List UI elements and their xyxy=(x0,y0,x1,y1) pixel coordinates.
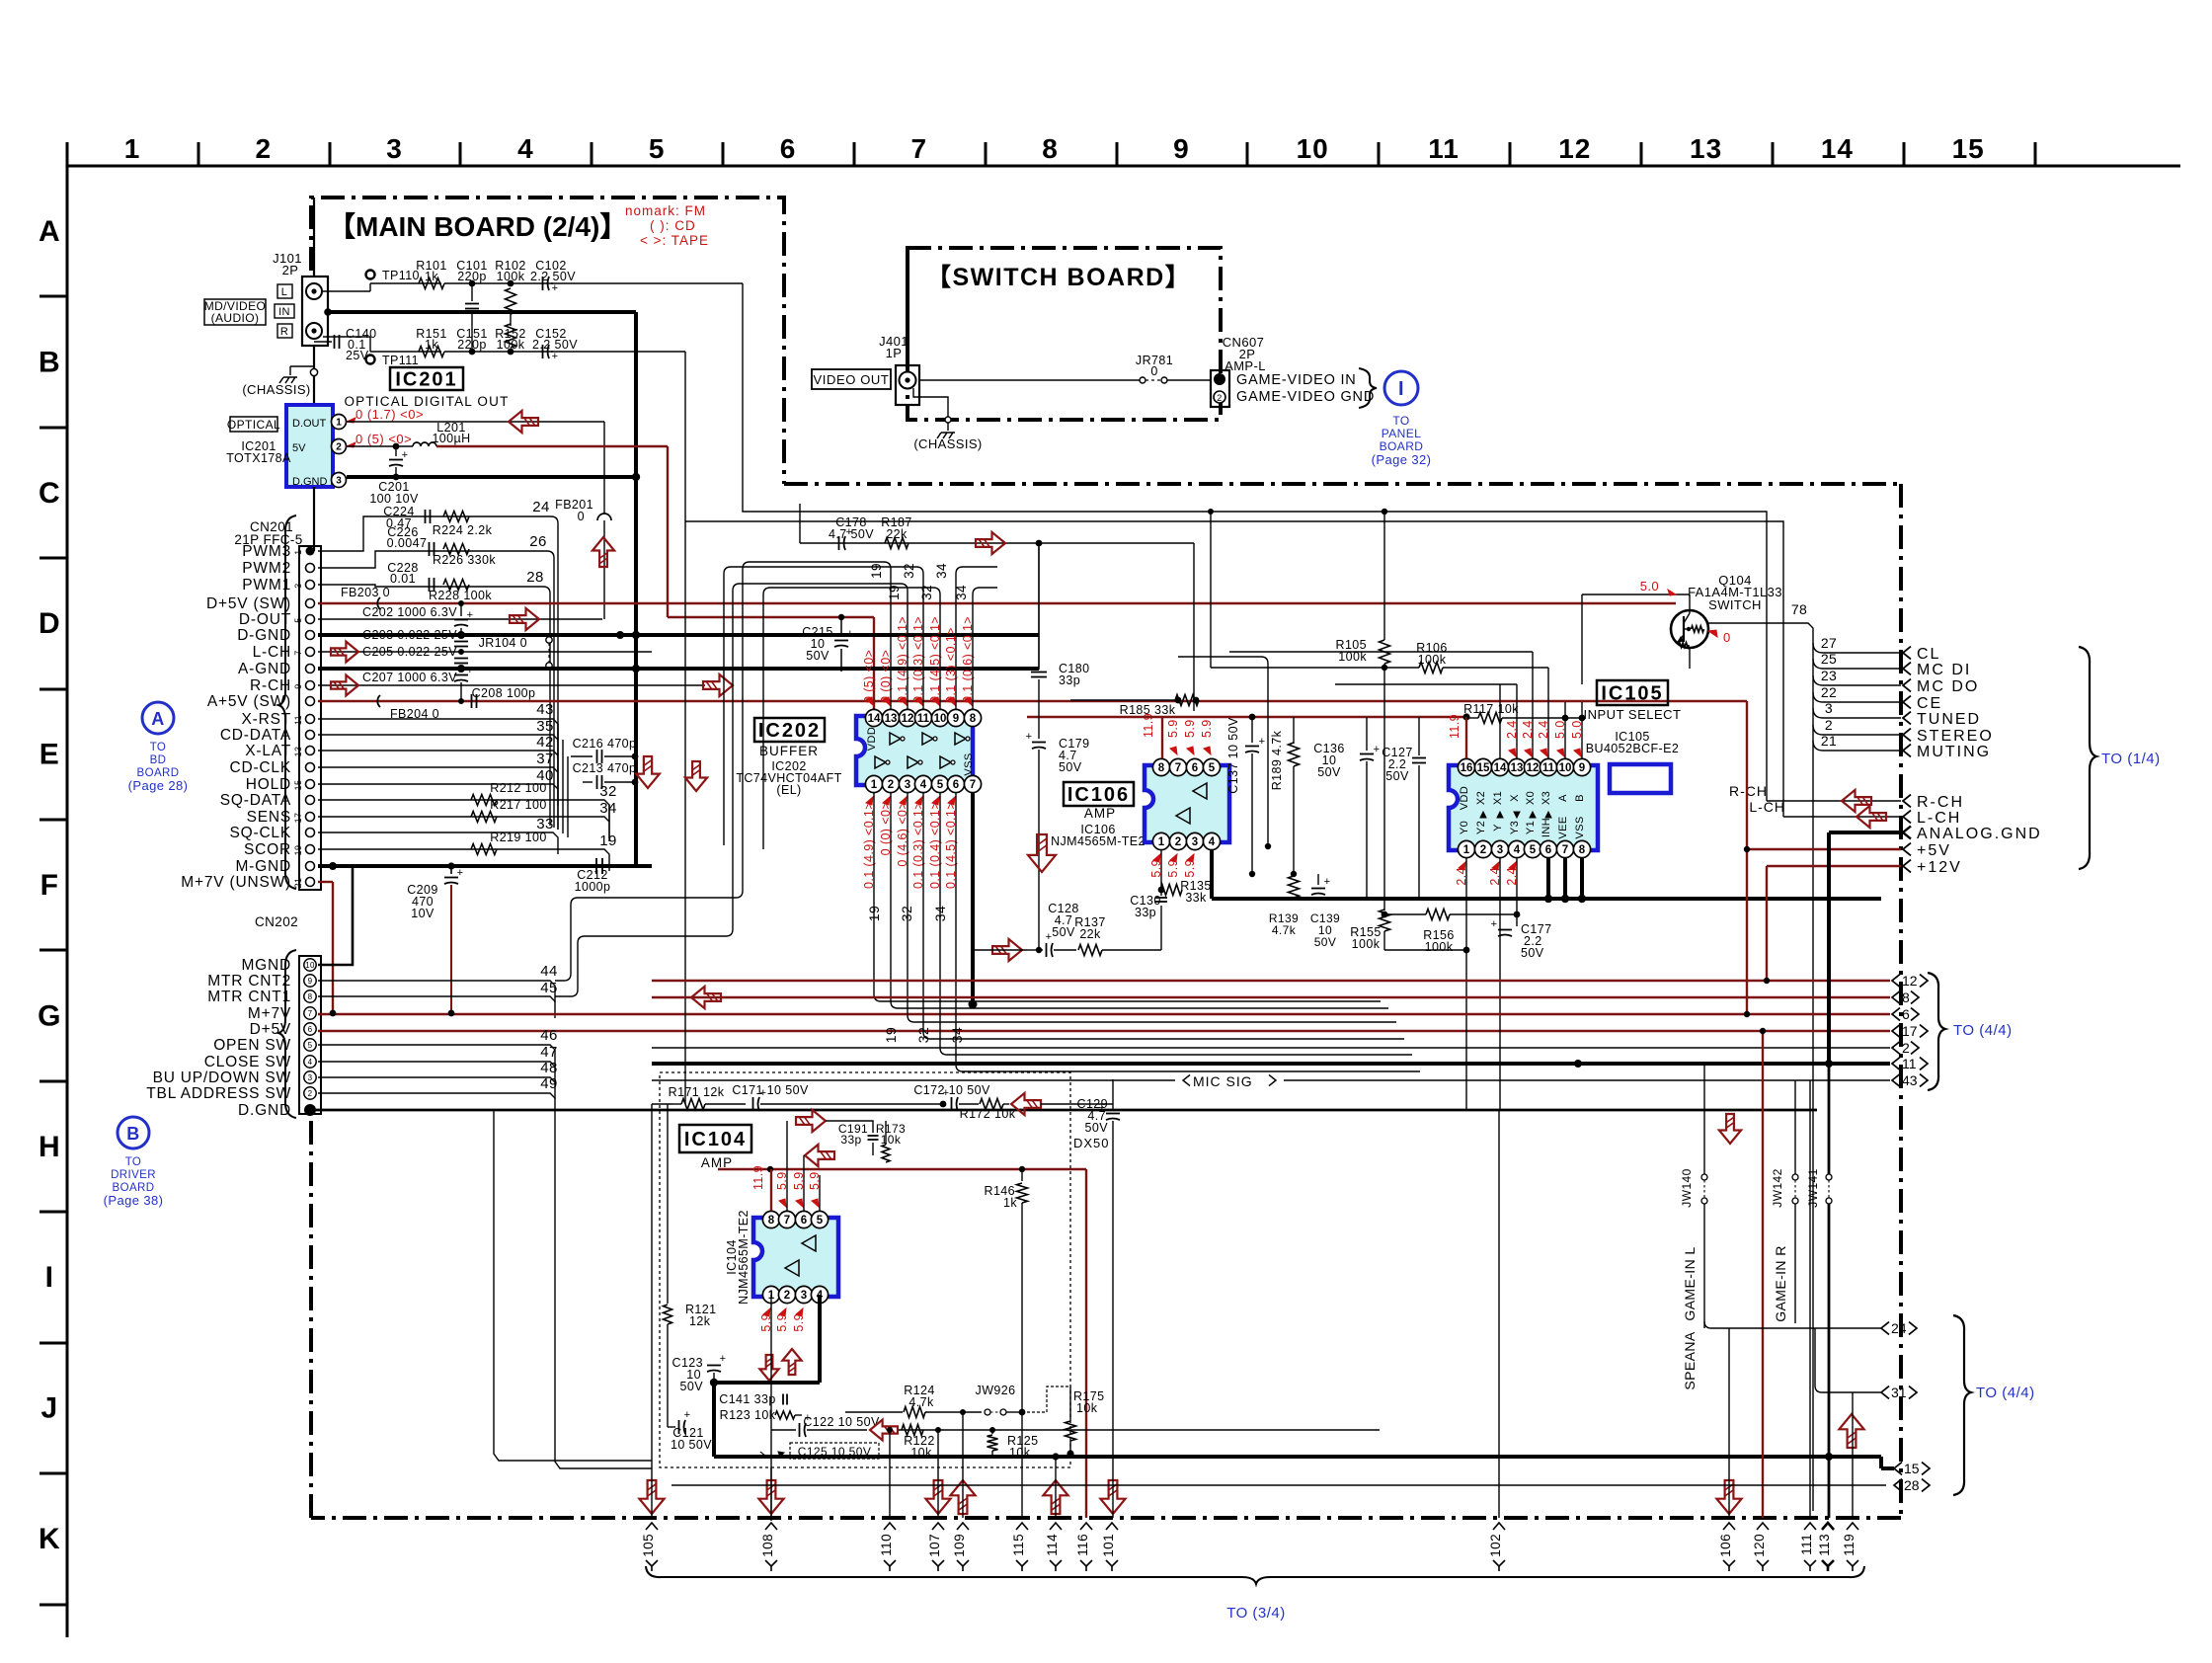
svg-text:12: 12 xyxy=(1558,133,1591,164)
svg-text:JW141: JW141 xyxy=(1806,1168,1820,1207)
svg-text:TO: TO xyxy=(1392,414,1409,428)
SWITCH BOARD dash-dot box xyxy=(908,248,1221,420)
wire MGND down from M-GND xyxy=(352,866,355,894)
svg-text:50V: 50V xyxy=(806,649,829,663)
svg-text:(EL): (EL) xyxy=(776,783,801,797)
IC104 opamp gates xyxy=(802,1235,816,1251)
svg-text:19: 19 xyxy=(887,585,902,600)
svg-text:X-LAT: X-LAT xyxy=(245,743,291,759)
IC202 label box xyxy=(754,718,825,742)
svg-text:CL: CL xyxy=(1917,646,1940,663)
bottom connector 116 xyxy=(1080,1523,1092,1530)
svg-text:12: 12 xyxy=(1902,973,1918,989)
svg-text:33p: 33p xyxy=(1059,673,1080,687)
wire Q104 collector to 78 bus xyxy=(1707,622,1797,624)
svg-text:5.9: 5.9 xyxy=(1200,719,1214,738)
svg-text:49: 49 xyxy=(540,1075,558,1092)
svg-text:10k: 10k xyxy=(881,1133,902,1147)
svg-text:44: 44 xyxy=(540,963,558,980)
red supply line IC104 xyxy=(718,1168,1086,1170)
svg-text:GAME-VIDEO IN: GAME-VIDEO IN xyxy=(1236,372,1357,388)
svg-text:R: R xyxy=(280,326,288,338)
svg-text:6: 6 xyxy=(1545,844,1551,856)
svg-text:STEREO: STEREO xyxy=(1917,728,1994,745)
svg-text:C207 1000 6.3V: C207 1000 6.3V xyxy=(362,671,457,684)
IC201 pin 3 xyxy=(332,473,347,488)
svg-text:H: H xyxy=(39,1131,60,1163)
ferrite bead FB201 xyxy=(603,422,605,514)
svg-text:2: 2 xyxy=(336,441,342,452)
svg-text:43: 43 xyxy=(536,701,554,718)
svg-text:5.0: 5.0 xyxy=(1570,720,1584,739)
svg-text:11: 11 xyxy=(1542,762,1555,774)
svg-text:2P: 2P xyxy=(282,263,299,277)
CN201 pin A+5V (SW) xyxy=(306,697,315,706)
CN202 pin MTR CNT2 xyxy=(304,975,316,987)
svg-text:42: 42 xyxy=(536,734,554,751)
red arrow before C128 xyxy=(992,939,1022,961)
long wire to L-CH xyxy=(684,352,686,1104)
svg-text:JR104 0: JR104 0 xyxy=(479,636,527,650)
svg-text:L-CH: L-CH xyxy=(1917,810,1961,827)
wire PWM3 row 24 xyxy=(318,516,551,551)
bottom connector 107 xyxy=(932,1523,944,1530)
svg-text:107: 107 xyxy=(927,1534,942,1557)
svg-text:100 10V: 100 10V xyxy=(369,492,419,506)
svg-text:5.9: 5.9 xyxy=(1166,859,1180,878)
svg-text:35: 35 xyxy=(536,718,554,735)
CN201 pin M+7V (UNSW) xyxy=(306,878,315,887)
IC202 output hairpin wires bottom xyxy=(874,793,1381,1001)
test point TP110 xyxy=(366,271,375,279)
svg-text:X: X xyxy=(1509,794,1521,802)
svg-text:MIC SIG: MIC SIG xyxy=(1193,1073,1253,1089)
red arrow mid right xyxy=(703,674,733,696)
label OPTICAL xyxy=(230,417,277,432)
svg-text:10: 10 xyxy=(934,713,947,725)
svg-text:GAME-IN L: GAME-IN L xyxy=(1682,1246,1698,1320)
svg-text:MTR CNT2: MTR CNT2 xyxy=(207,973,291,990)
svg-text:+: + xyxy=(1046,931,1053,943)
svg-text:17: 17 xyxy=(293,813,303,824)
svg-text:D-GND: D-GND xyxy=(237,627,291,644)
svg-text:VSS: VSS xyxy=(1574,816,1586,838)
svg-text:3: 3 xyxy=(293,583,303,588)
signal MC DI xyxy=(1813,659,1901,669)
IC202 pin7 VSS thick wire xyxy=(971,793,975,1004)
svg-text:C137 10 50V: C137 10 50V xyxy=(1226,717,1240,794)
svg-text:X1: X1 xyxy=(1492,791,1504,805)
svg-text:A-GND: A-GND xyxy=(238,661,291,677)
svg-text:+5V: +5V xyxy=(1917,842,1951,859)
svg-text:R185 33k: R185 33k xyxy=(1120,703,1176,717)
svg-text:21: 21 xyxy=(293,878,303,889)
red arrow R-CH xyxy=(331,675,358,696)
red wire D+5V SW row xyxy=(318,602,1676,604)
svg-text:C: C xyxy=(39,477,60,510)
capacitor C125 dashed box xyxy=(790,1443,879,1459)
svg-text:19: 19 xyxy=(883,1027,899,1043)
svg-text:C208 100p: C208 100p xyxy=(472,686,536,700)
svg-text:PANEL: PANEL xyxy=(1382,427,1421,440)
svg-text:< >: TAPE: < >: TAPE xyxy=(640,233,709,248)
svg-text:VIDEO OUT: VIDEO OUT xyxy=(814,372,890,387)
transistor Q104 FA1A4M-T1L33 SWITCH xyxy=(1671,610,1708,648)
svg-text:7: 7 xyxy=(911,133,928,164)
svg-text:(AUDIO): (AUDIO) xyxy=(211,311,260,325)
svg-text:0.01: 0.01 xyxy=(390,572,416,586)
svg-text:BUFFER: BUFFER xyxy=(759,744,819,758)
svg-text:4.7k: 4.7k xyxy=(1272,923,1297,937)
IC106 top pins xyxy=(1152,758,1169,775)
svg-text:D-OUT: D-OUT xyxy=(239,611,291,628)
red arrow L-CH xyxy=(331,642,358,663)
wire MTR CNT2 44 xyxy=(318,980,538,982)
bottom connector 120 xyxy=(1757,1523,1769,1530)
svg-text:7: 7 xyxy=(1175,762,1181,774)
wire caps to M-GND xyxy=(634,756,636,866)
svg-text:JW926: JW926 xyxy=(976,1384,1016,1397)
IC106 label box xyxy=(1064,782,1134,806)
MAIN BOARD dash-dot border xyxy=(311,198,784,484)
svg-text:TO (4/4): TO (4/4) xyxy=(1976,1385,2035,1401)
wire A-GND row thick xyxy=(318,667,1039,671)
svg-text:2: 2 xyxy=(1825,717,1833,733)
svg-text:TO: TO xyxy=(125,1156,142,1168)
svg-text:28: 28 xyxy=(1904,1477,1920,1493)
dotted jumper link xyxy=(1022,1386,1070,1412)
CN201 pin CD-DATA xyxy=(306,731,315,740)
svg-text:R-CH: R-CH xyxy=(1917,794,1964,811)
svg-text:R217 100: R217 100 xyxy=(490,798,546,812)
IC202 body xyxy=(856,716,973,785)
svg-text:nomark: FM: nomark: FM xyxy=(625,203,706,218)
red wire 12V to IC106 pin8 xyxy=(1027,716,1466,718)
svg-text:114: 114 xyxy=(1045,1534,1060,1556)
svg-text:A+5V (SW): A+5V (SW) xyxy=(207,693,291,710)
svg-text:(Page 32): (Page 32) xyxy=(1372,452,1432,467)
svg-text:50V: 50V xyxy=(1059,760,1082,774)
svg-text:【MAIN BOARD (2/4)】: 【MAIN BOARD (2/4)】 xyxy=(328,211,627,242)
capacitor C201 100 10V xyxy=(393,443,400,450)
svg-text:2.2 50V: 2.2 50V xyxy=(530,270,576,283)
wire video out to CN607 xyxy=(919,379,1140,381)
signal +12V xyxy=(1767,865,1901,867)
svg-text:8: 8 xyxy=(768,1215,775,1227)
wire IC106 pin4 thick xyxy=(1210,850,1214,899)
svg-text:13: 13 xyxy=(1511,762,1524,774)
svg-text:10V: 10V xyxy=(411,907,434,920)
svg-text:Y: Y xyxy=(1492,824,1504,831)
svg-text:0: 0 xyxy=(1723,630,1731,645)
svg-text:IC105: IC105 xyxy=(1601,682,1663,704)
red arrow up FB201 xyxy=(592,537,614,567)
wires IC104 pins vertical xyxy=(770,1169,772,1211)
svg-text:K: K xyxy=(39,1523,60,1555)
connector CN202 xyxy=(299,956,321,1114)
svg-text:120: 120 xyxy=(1752,1534,1767,1557)
svg-text:R226 330k: R226 330k xyxy=(433,553,496,567)
wire IC105 pin3 down xyxy=(1499,858,1501,1110)
svg-text:2: 2 xyxy=(1480,844,1486,856)
svg-text:6: 6 xyxy=(1192,762,1198,774)
svg-text:1: 1 xyxy=(1158,836,1165,848)
node A to BD board xyxy=(142,702,174,734)
wire PWM1 row 28 xyxy=(318,585,543,587)
svg-text:BU UP/DOWN SW: BU UP/DOWN SW xyxy=(153,1069,291,1086)
svg-text:14: 14 xyxy=(1821,133,1854,164)
bottom connector 114 xyxy=(1050,1523,1062,1530)
svg-text:AMP: AMP xyxy=(1084,806,1116,821)
CN201 pin PWM3 xyxy=(306,547,315,556)
svg-text:TP110: TP110 xyxy=(382,269,420,282)
svg-text:VDD: VDD xyxy=(1459,786,1470,810)
svg-text:D.OUT: D.OUT xyxy=(292,418,327,430)
CN202 pin MGND xyxy=(304,959,316,971)
red bus wire 12 xyxy=(652,980,1890,982)
IC201 pin 1 xyxy=(332,415,347,430)
wire X-LAT 42 xyxy=(318,750,545,752)
wire SCOR 19 with R219 xyxy=(318,848,592,850)
svg-text:C172 10 50V: C172 10 50V xyxy=(913,1083,990,1097)
svg-text:D: D xyxy=(39,607,60,640)
brace TO 4/4 lower xyxy=(1953,1315,1971,1495)
svg-text:B: B xyxy=(39,346,60,378)
wire SQ-CLK 33 xyxy=(318,831,545,833)
red arrow left long wire xyxy=(691,987,721,1008)
svg-text:TP111: TP111 xyxy=(382,354,419,367)
wire D.GND row xyxy=(316,1109,1817,1112)
CN201 pin SQ-DATA xyxy=(306,796,315,805)
svg-text:+: + xyxy=(943,1087,950,1099)
svg-text:4: 4 xyxy=(920,779,927,791)
svg-text:A: A xyxy=(39,215,60,248)
IC201 label box xyxy=(390,367,463,390)
svg-text:2: 2 xyxy=(308,1089,313,1098)
svg-text:15: 15 xyxy=(1477,762,1490,774)
wire HOLD 40 xyxy=(318,783,545,785)
CN202 pin D.GND xyxy=(304,1104,316,1116)
svg-text:78: 78 xyxy=(1791,601,1807,617)
wire PWM2 row 26 xyxy=(318,551,547,568)
svg-text:8: 8 xyxy=(308,992,313,1001)
svg-text:+: + xyxy=(457,867,464,879)
svg-text:+12V: +12V xyxy=(1917,859,1962,876)
svg-text:46: 46 xyxy=(540,1027,558,1044)
svg-text:2: 2 xyxy=(888,779,894,791)
svg-text:SCOR: SCOR xyxy=(244,841,291,858)
svg-text:X0: X0 xyxy=(1525,791,1537,805)
svg-text:AMP-L: AMP-L xyxy=(1224,358,1266,373)
svg-text:50V: 50V xyxy=(1521,946,1544,960)
svg-text:3: 3 xyxy=(801,1290,807,1302)
svg-text:1: 1 xyxy=(293,549,303,554)
label MD/VIDEO (AUDIO) xyxy=(204,299,266,325)
CN201 pin D-OUT xyxy=(306,615,315,624)
wire R-CH row xyxy=(318,684,705,686)
svg-text:3: 3 xyxy=(1192,836,1198,848)
brace TO 3/4 xyxy=(646,1566,1864,1584)
svg-text:+: + xyxy=(1099,1102,1106,1114)
svg-text:INPUT SELECT: INPUT SELECT xyxy=(1584,707,1682,722)
svg-text:TO (1/4): TO (1/4) xyxy=(2101,751,2161,767)
wire TBL ADDRESS SW 49 xyxy=(318,1092,538,1094)
svg-text:R228 100k: R228 100k xyxy=(429,589,492,602)
bottom connector 113 xyxy=(1822,1523,1834,1530)
chassis ground at J101 xyxy=(290,365,314,367)
svg-text:( ): CD: ( ): CD xyxy=(650,218,696,233)
IC105 top pins xyxy=(1458,758,1474,775)
CN201 pin L-CH xyxy=(306,648,315,657)
svg-text:D+5V (SW): D+5V (SW) xyxy=(206,595,291,612)
svg-text:48: 48 xyxy=(540,1060,558,1076)
svg-text:100k: 100k xyxy=(1352,937,1381,951)
capacitor C140 xyxy=(314,341,332,343)
bottom connector 110 xyxy=(884,1523,896,1530)
svg-text:JW140: JW140 xyxy=(1680,1168,1694,1207)
CN201 pin PWM1 xyxy=(306,581,315,590)
svg-text:8: 8 xyxy=(1042,133,1059,164)
CN201 pin SQ-CLK xyxy=(306,829,315,837)
svg-text:19: 19 xyxy=(866,906,882,921)
svg-text:I: I xyxy=(1398,378,1404,400)
red arrow on D.OUT wire xyxy=(509,411,538,433)
svg-text:13: 13 xyxy=(1690,133,1722,164)
signal STEREO xyxy=(1813,725,1901,735)
svg-text:C122 10 50V: C122 10 50V xyxy=(803,1415,880,1429)
bottom connector 102 xyxy=(1493,1523,1505,1530)
svg-text:3: 3 xyxy=(1825,700,1833,716)
svg-text:1P: 1P xyxy=(886,346,903,360)
svg-text:25: 25 xyxy=(1821,651,1837,667)
svg-text:32: 32 xyxy=(902,563,916,579)
svg-text:Y2: Y2 xyxy=(1475,821,1487,834)
IC201 body TOTX178A xyxy=(286,405,333,487)
svg-text:CE: CE xyxy=(1917,695,1942,712)
CN201 pin R-CH xyxy=(306,681,315,690)
svg-text:12: 12 xyxy=(1527,762,1540,774)
svg-text:24: 24 xyxy=(532,499,550,515)
svg-text:14: 14 xyxy=(868,713,881,725)
svg-text:102: 102 xyxy=(1488,1534,1503,1557)
svg-text:10k: 10k xyxy=(1009,1446,1031,1460)
svg-text:2: 2 xyxy=(256,133,273,164)
svg-text:105: 105 xyxy=(641,1534,656,1557)
CN202 pin D+5V xyxy=(304,1023,316,1035)
svg-text:15: 15 xyxy=(1952,133,1985,164)
svg-text:【SWITCH BOARD】: 【SWITCH BOARD】 xyxy=(926,264,1191,291)
wire +12V red vertical down xyxy=(1766,866,1768,981)
svg-text:50V: 50V xyxy=(1314,935,1337,949)
CN201 pin M-GND xyxy=(306,862,315,871)
svg-text:E: E xyxy=(39,739,59,771)
wire L-CH row xyxy=(318,651,652,653)
CN201 pin D-GND xyxy=(306,631,315,640)
svg-text:FB201: FB201 xyxy=(555,498,593,512)
brace TO 1/4 xyxy=(2079,647,2096,869)
svg-text:7: 7 xyxy=(293,650,303,655)
svg-text:34: 34 xyxy=(932,906,948,921)
svg-text:G: G xyxy=(38,999,61,1032)
svg-text:13: 13 xyxy=(885,713,898,725)
svg-text:10k: 10k xyxy=(910,1446,932,1460)
wire D.GND pin3 thick xyxy=(347,475,636,479)
long wire from C102 to R-CH xyxy=(743,283,1767,801)
svg-text:15: 15 xyxy=(293,780,303,791)
svg-text:16: 16 xyxy=(1461,762,1473,774)
label MIC SIG xyxy=(1183,1074,1190,1085)
svg-text:I: I xyxy=(45,1261,54,1294)
svg-text:108: 108 xyxy=(760,1534,775,1557)
svg-text:113: 113 xyxy=(1817,1534,1832,1556)
wire to connector 28 xyxy=(671,1484,1886,1486)
CN202 pin CLOSE SW xyxy=(304,1056,316,1068)
bottom connector 119 xyxy=(1847,1523,1858,1530)
switch board left edge thick xyxy=(906,248,909,364)
signal MC DO xyxy=(1813,675,1901,685)
svg-text:R171 12k: R171 12k xyxy=(669,1085,725,1099)
wire J101 top to filter row L xyxy=(323,290,370,292)
red arrow left C122 xyxy=(870,1420,898,1441)
svg-text:L: L xyxy=(281,286,288,298)
svg-text:SQ-CLK: SQ-CLK xyxy=(229,825,291,841)
svg-text:+: + xyxy=(1491,918,1498,930)
svg-text:7: 7 xyxy=(308,1009,313,1018)
signal MUTING xyxy=(1813,741,1901,751)
svg-text:50V: 50V xyxy=(1385,769,1409,783)
brace A group xyxy=(278,515,296,889)
svg-text:106: 106 xyxy=(1718,1534,1733,1557)
svg-text:100k: 100k xyxy=(1425,940,1454,954)
red arrow right small xyxy=(796,1110,826,1132)
brace to panel board xyxy=(1359,368,1377,408)
red wire M+7V row xyxy=(318,1013,1264,1015)
svg-text:+: + xyxy=(760,1087,767,1099)
svg-text:23: 23 xyxy=(1821,668,1837,683)
svg-text:14: 14 xyxy=(1494,762,1507,774)
wire IC105 pin4 down to C177 xyxy=(1516,858,1518,914)
bus wire 11 thick analog gnd xyxy=(652,1062,1890,1066)
svg-text:VSS: VSS xyxy=(963,752,975,775)
wire CLOSE SW 47 xyxy=(318,1061,538,1063)
svg-text:CD-DATA: CD-DATA xyxy=(220,727,291,744)
wire BU UP/DOWN SW 48 xyxy=(318,1076,538,1078)
svg-text:X2: X2 xyxy=(1475,791,1487,805)
svg-text:NJM4565M-TE2: NJM4565M-TE2 xyxy=(737,1210,750,1305)
bottom connector 111 xyxy=(1804,1523,1816,1530)
J401 chassis ground xyxy=(913,388,948,417)
signal ANALOG.GND xyxy=(1829,831,1901,834)
svg-text:IC201: IC201 xyxy=(395,368,457,390)
svg-text:VDD: VDD xyxy=(866,727,878,751)
svg-text:8: 8 xyxy=(970,713,977,725)
wire OPEN SW 46 xyxy=(318,1044,538,1046)
svg-text:4: 4 xyxy=(1514,844,1521,856)
wire J101 bottom row R xyxy=(323,336,370,338)
IC106 body xyxy=(1145,765,1229,842)
svg-text:50V: 50V xyxy=(1052,925,1075,939)
svg-text:34: 34 xyxy=(599,800,617,817)
svg-text:17: 17 xyxy=(1902,1023,1918,1039)
CN201 pin PWM2 xyxy=(306,564,315,573)
svg-text:5.9: 5.9 xyxy=(1183,859,1197,878)
L IN R tags xyxy=(277,284,292,298)
svg-text:115: 115 xyxy=(1011,1534,1026,1556)
svg-text:11.9: 11.9 xyxy=(1448,714,1461,739)
svg-text:27: 27 xyxy=(1821,635,1837,651)
svg-text:X-RST: X-RST xyxy=(242,711,292,728)
svg-text:BU4052BCF-E2: BU4052BCF-E2 xyxy=(1586,742,1679,755)
